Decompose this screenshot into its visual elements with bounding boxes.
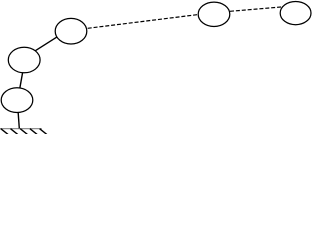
wire node2 to node3 xyxy=(34,36,59,52)
node 1 xyxy=(1,88,33,113)
node 2 xyxy=(8,47,40,73)
wire node1 to node2 xyxy=(20,70,24,90)
node 5 xyxy=(280,2,311,25)
ground xyxy=(0,129,47,135)
node 4 xyxy=(198,2,230,26)
wire node3 to node4 (dashed) xyxy=(88,15,199,29)
wire ground to node1 xyxy=(18,112,19,129)
node 3 xyxy=(55,18,87,44)
wire node4 to node5 (dashed) xyxy=(230,7,281,11)
